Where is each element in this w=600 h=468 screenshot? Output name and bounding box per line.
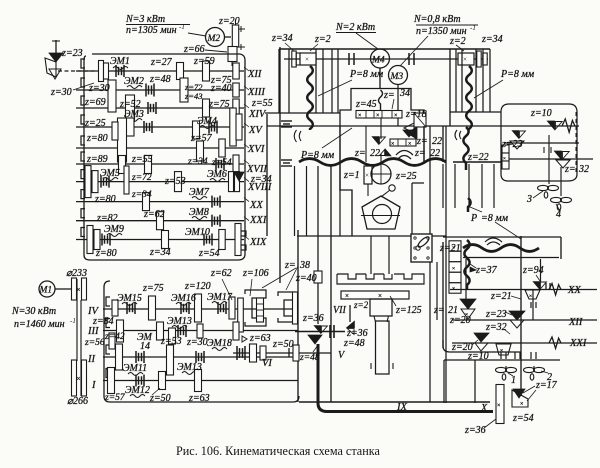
svg-text:z=21: z=21: [490, 291, 512, 302]
svg-text:z=22: z=22: [467, 152, 489, 163]
svg-text:⌀233: ⌀233: [66, 268, 87, 279]
svg-text:z=80: z=80: [95, 248, 117, 259]
svg-text:z=30: z=30: [50, 87, 72, 98]
svg-text:z=2: z=2: [314, 34, 331, 45]
svg-text:z=36: z=36: [464, 425, 486, 436]
svg-text:4: 4: [556, 209, 561, 220]
svg-text:z=82: z=82: [96, 213, 118, 224]
svg-text:z=20: z=20: [449, 315, 471, 326]
svg-text:z=: z=: [383, 90, 395, 101]
svg-text:=8 мм: =8 мм: [481, 213, 509, 224]
svg-text:z=25: z=25: [84, 118, 106, 129]
svg-text:XIII: XIII: [247, 87, 265, 98]
svg-text:z=23: z=23: [485, 309, 507, 320]
svg-text:z=75: z=75: [208, 99, 230, 110]
svg-text:z=80: z=80: [94, 194, 116, 205]
svg-text:×: ×: [365, 172, 369, 180]
svg-text:P=8 мм: P=8 мм: [349, 69, 384, 80]
svg-text:×: ×: [345, 292, 349, 300]
svg-text:z=34: z=34: [481, 34, 503, 45]
svg-text:z=40: z=40: [295, 273, 317, 284]
svg-text:n=1305 мин: n=1305 мин: [126, 25, 177, 36]
svg-text:z=30: z=30: [186, 337, 208, 348]
svg-text:z=54: z=54: [198, 248, 220, 259]
svg-text:z=: z=: [284, 260, 296, 271]
svg-text:VI: VI: [262, 358, 272, 369]
svg-text:I: I: [91, 380, 96, 391]
svg-text:3: 3: [526, 194, 532, 205]
svg-text:z=53: z=53: [160, 336, 182, 347]
svg-text:×: ×: [452, 245, 455, 251]
svg-text:z=34: z=34: [131, 190, 152, 200]
svg-text:z=55: z=55: [251, 98, 273, 109]
svg-text:22: 22: [430, 148, 440, 159]
svg-text:×: ×: [358, 113, 361, 119]
svg-text:×: ×: [378, 292, 382, 300]
svg-text:×: ×: [77, 375, 81, 383]
svg-text:z=55: z=55: [131, 154, 153, 165]
svg-text:×: ×: [452, 286, 455, 292]
svg-text:ЭМ1: ЭМ1: [110, 56, 130, 67]
svg-text:z=62: z=62: [143, 209, 165, 220]
svg-text:z=1: z=1: [343, 170, 360, 181]
svg-text:ЭМ15: ЭМ15: [117, 293, 142, 304]
svg-text:-1: -1: [179, 23, 185, 31]
svg-text:XII: XII: [568, 317, 583, 328]
svg-text:ЭМ11: ЭМ11: [123, 363, 147, 374]
svg-text:z=50: z=50: [149, 393, 171, 404]
svg-text:z=84: z=84: [92, 316, 114, 327]
svg-text:z=54: z=54: [211, 158, 232, 168]
svg-text:×: ×: [391, 142, 394, 148]
svg-text:N=2 кВт: N=2 кВт: [335, 22, 375, 33]
svg-text:z=56: z=56: [84, 338, 105, 348]
svg-text:VII: VII: [333, 305, 346, 316]
svg-text:ЭМ13: ЭМ13: [177, 362, 202, 373]
svg-text:ЭМ10: ЭМ10: [185, 227, 210, 238]
svg-text:ЭМ12: ЭМ12: [125, 385, 150, 396]
svg-text:ЭМ16: ЭМ16: [171, 293, 196, 304]
svg-text:z=63: z=63: [249, 333, 271, 344]
svg-text:z=57: z=57: [190, 133, 213, 144]
svg-text:z=40: z=40: [210, 83, 232, 94]
svg-text:N=30 кВт: N=30 кВт: [11, 306, 56, 317]
svg-text:II: II: [87, 354, 95, 365]
svg-text:z=80: z=80: [86, 133, 108, 144]
svg-text:22: 22: [370, 148, 380, 159]
svg-text:ЭМ7: ЭМ7: [189, 187, 210, 198]
svg-text:X: X: [480, 403, 488, 414]
svg-text:z=63: z=63: [188, 393, 210, 404]
svg-text:М1: М1: [39, 286, 53, 296]
svg-text:×: ×: [463, 56, 467, 64]
svg-text:×: ×: [77, 286, 81, 294]
svg-text:z=: z=: [433, 305, 445, 316]
svg-text:×: ×: [520, 402, 523, 408]
svg-text:z=53: z=53: [164, 176, 186, 187]
svg-text:n=1460 мин: n=1460 мин: [14, 319, 65, 330]
svg-text:ЭМ6: ЭМ6: [207, 169, 227, 180]
svg-text:z=: z=: [416, 136, 428, 147]
svg-text:N=3 кВт: N=3 кВт: [125, 14, 165, 25]
svg-text:-1: -1: [470, 24, 476, 32]
svg-text:z=27: z=27: [150, 57, 173, 68]
svg-text:XV: XV: [248, 125, 263, 136]
svg-text:22: 22: [432, 136, 442, 147]
svg-text:z=106: z=106: [242, 268, 269, 279]
svg-text:×: ×: [529, 294, 532, 300]
svg-text:z=94: z=94: [522, 265, 544, 276]
svg-text:×: ×: [503, 157, 506, 162]
svg-text:IX: IX: [396, 402, 407, 413]
svg-text:z=34: z=34: [187, 157, 208, 167]
svg-text:ЭМ17: ЭМ17: [207, 292, 233, 303]
svg-text:z=72: z=72: [131, 173, 152, 183]
svg-text:z=10: z=10: [530, 108, 552, 119]
svg-text:N=0,8 кВт: N=0,8 кВт: [413, 14, 461, 25]
svg-text:z=2: z=2: [449, 36, 466, 47]
svg-text:z=34: z=34: [271, 33, 293, 44]
svg-text:z=54: z=54: [512, 413, 534, 424]
svg-text:ЭМ4: ЭМ4: [197, 116, 217, 127]
svg-text:P: P: [470, 213, 477, 224]
svg-text:z=48: z=48: [343, 338, 365, 349]
svg-text:38: 38: [299, 260, 310, 271]
svg-text:z=34: z=34: [149, 247, 171, 258]
svg-text:z=120: z=120: [184, 281, 211, 292]
svg-text:ЭМ3: ЭМ3: [124, 109, 144, 120]
svg-text:z=66: z=66: [183, 44, 205, 55]
svg-text:P=8 мм: P=8 мм: [500, 69, 535, 80]
svg-text:z=43: z=43: [184, 91, 203, 101]
svg-text:14: 14: [140, 341, 150, 352]
svg-text:×: ×: [497, 403, 500, 409]
svg-text:⌀266: ⌀266: [67, 396, 88, 407]
svg-text:XX: XX: [249, 200, 263, 211]
svg-text:III: III: [87, 326, 99, 337]
svg-text:z=69: z=69: [84, 97, 106, 108]
svg-text:XXI: XXI: [249, 215, 267, 226]
svg-text:z=21: z=21: [439, 243, 461, 254]
svg-text:z=23: z=23: [61, 48, 83, 59]
svg-text:z=57: z=57: [104, 393, 126, 403]
svg-text:XIX: XIX: [249, 237, 267, 248]
svg-text:XII: XII: [247, 69, 262, 80]
svg-text:z=10: z=10: [467, 351, 489, 362]
svg-text:V: V: [338, 350, 346, 361]
svg-text:z=48: z=48: [299, 353, 320, 363]
svg-text:z=17: z=17: [535, 380, 558, 391]
svg-text:XIV: XIV: [248, 109, 267, 120]
svg-text:32: 32: [578, 164, 589, 175]
svg-text:ЭМ13: ЭМ13: [167, 316, 192, 327]
svg-text:z=20: z=20: [218, 16, 240, 27]
svg-text:ЭМ5: ЭМ5: [100, 168, 120, 179]
svg-text:z=: z=: [354, 148, 366, 159]
svg-text:1: 1: [511, 375, 516, 386]
svg-text:z=18: z=18: [405, 109, 427, 120]
svg-text:М4: М4: [371, 56, 385, 66]
svg-text:×: ×: [313, 337, 316, 343]
svg-text:z=32: z=32: [485, 322, 507, 333]
svg-text:z=89: z=89: [86, 154, 108, 165]
svg-text:×: ×: [394, 113, 397, 119]
svg-text:z=25: z=25: [395, 171, 417, 182]
svg-text:z=36: z=36: [302, 313, 324, 324]
svg-text:z=23: z=23: [501, 139, 523, 150]
svg-text:XVI: XVI: [247, 144, 265, 155]
svg-text:×: ×: [305, 56, 309, 64]
svg-text:z=2: z=2: [353, 300, 369, 310]
svg-text:z=: z=: [414, 148, 426, 159]
svg-text:z=48: z=48: [149, 74, 171, 85]
svg-text:z=59: z=59: [193, 56, 215, 67]
svg-text:ЭМ8: ЭМ8: [189, 207, 209, 218]
svg-text:Рис. 106. Кинематическая схема: Рис. 106. Кинематическая схема станка: [176, 444, 380, 458]
svg-text:-1: -1: [70, 317, 76, 325]
svg-text:z=75: z=75: [142, 283, 164, 294]
svg-text:z=42: z=42: [104, 332, 125, 342]
svg-text:×: ×: [408, 142, 411, 148]
svg-text:ЭМ2: ЭМ2: [124, 76, 144, 87]
svg-text:P=8 мм: P=8 мм: [300, 150, 335, 161]
svg-text:×: ×: [500, 348, 503, 354]
svg-text:z=62: z=62: [210, 268, 232, 279]
svg-text:М2: М2: [207, 34, 221, 44]
svg-text:ЭМ18: ЭМ18: [207, 338, 232, 349]
svg-text:М3: М3: [390, 72, 404, 82]
svg-text:XX: XX: [567, 285, 581, 296]
svg-text:z=50: z=50: [272, 339, 294, 350]
svg-text:z=37: z=37: [475, 265, 498, 276]
svg-text:ЭМ9: ЭМ9: [104, 224, 124, 235]
svg-text:z=34: z=34: [250, 174, 272, 185]
svg-text:z=45: z=45: [355, 99, 377, 110]
svg-text:XXI: XXI: [569, 338, 587, 349]
svg-text:z=: z=: [564, 164, 576, 175]
svg-text:×: ×: [376, 113, 379, 119]
svg-text:z=125: z=125: [395, 305, 422, 316]
svg-text:×: ×: [452, 266, 455, 272]
svg-text:z=30: z=30: [88, 83, 110, 94]
svg-text:34: 34: [399, 88, 410, 99]
